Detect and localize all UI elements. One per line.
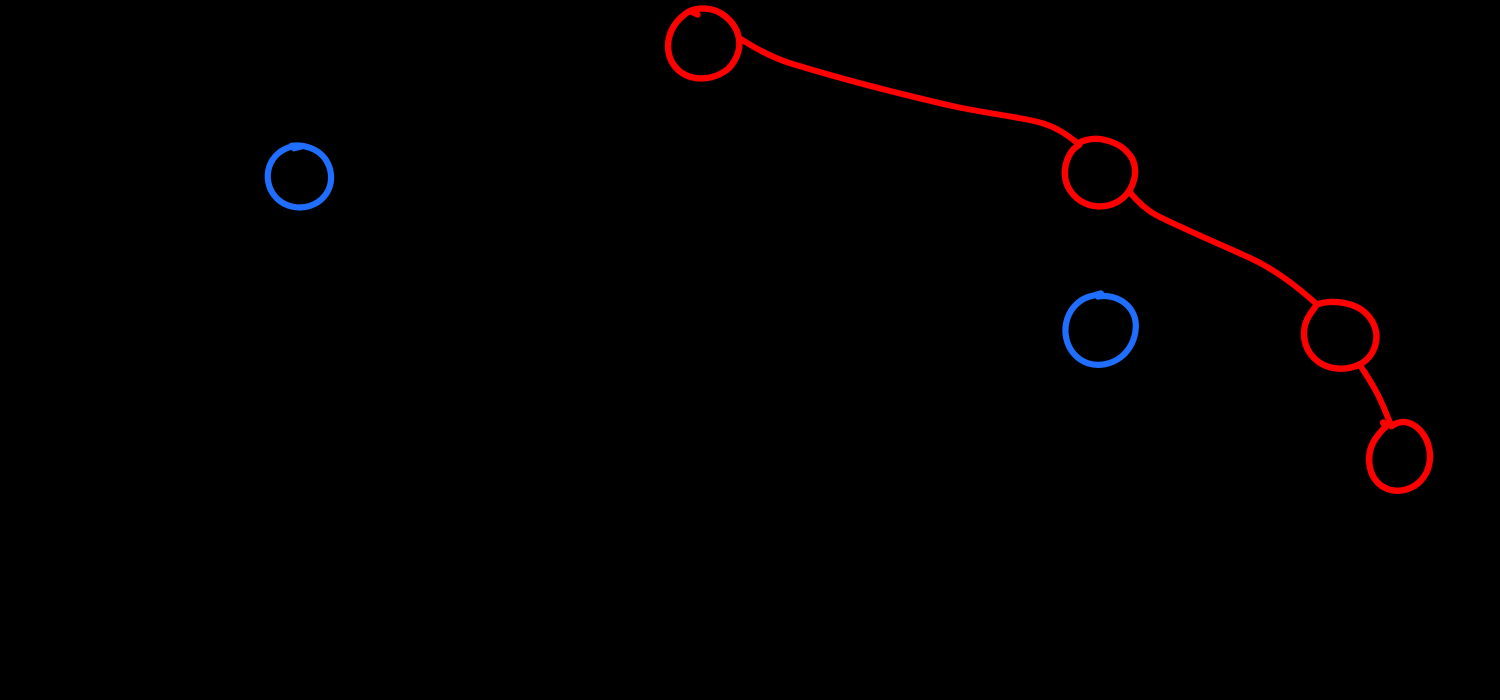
node C (red circle, middle of chain) (1065, 139, 1135, 207)
node E (red circle, bottom right) (1369, 422, 1430, 491)
node A (blue circle, upper left) (268, 145, 331, 207)
wire D-E (red edge from node D to node E) (1360, 365, 1392, 427)
node D (red circle, right) (1304, 302, 1376, 369)
node F (blue circle, lower middle-right) (1065, 293, 1135, 364)
wire C-D (red edge from node C to node D) (1129, 191, 1316, 304)
wire B-C (red edge from node B to node C) (739, 38, 1078, 144)
node B (red circle, top center) (668, 9, 739, 79)
